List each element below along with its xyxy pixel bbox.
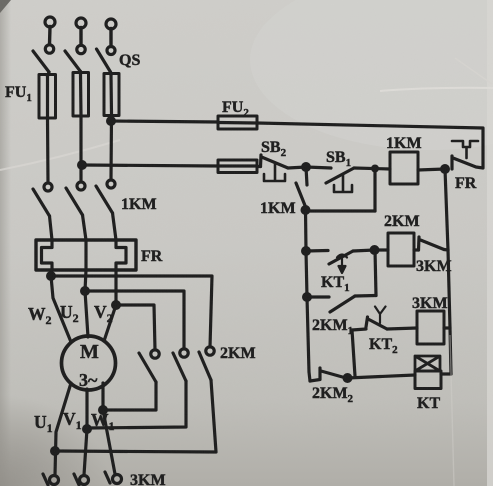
contactor 2KM pole1 terminal	[151, 350, 159, 358]
wire KT2 riser to contact	[352, 329, 366, 330]
pushbutton SB2 fixed tick	[259, 155, 263, 167]
node W1 to 2KM return	[100, 407, 107, 414]
motor M circle	[62, 336, 116, 390]
supply terminal circle phase 1	[45, 17, 55, 27]
pushbutton SB1 blade	[326, 168, 354, 183]
wire node H to KT coil	[348, 375, 416, 378]
label 1KM main contacts	[121, 196, 157, 213]
wire KT2 to 3KM coil	[387, 328, 417, 329]
label SB1	[326, 149, 351, 169]
contact KT1 blade	[329, 251, 353, 264]
thermal contact FR blade	[453, 158, 483, 168]
contactor 3KM pole1 terminal	[50, 476, 59, 485]
supply terminal circle phase 2	[76, 18, 86, 28]
fuse FU2 lower element wire	[218, 164, 257, 167]
wire phase1 drop to QS	[48, 27, 52, 45]
node G junction	[371, 247, 378, 254]
wire QS3 to fuse FU1c	[109, 72, 113, 75]
wire riser to node B	[373, 169, 376, 212]
switch QS pole 3 blade	[97, 49, 111, 72]
wire KT2 riser	[352, 330, 355, 376]
wire FR phase1 down	[51, 270, 71, 342]
wire FU2 to SB2	[257, 165, 261, 168]
wire node F to 2KM1 contact	[307, 295, 329, 298]
wire branch phase3 to 2KM pole1	[116, 305, 155, 350]
label KT coil	[417, 395, 440, 412]
wire motor V1 lead down	[84, 389, 87, 475]
wire 2KM1 to riser	[355, 294, 376, 298]
wire 1KM pole3 to FR	[113, 213, 117, 240]
paper crease left	[0, 140, 120, 170]
wire 1KM coil to node C	[418, 169, 445, 170]
contact 2KM2 fixed tick	[310, 368, 320, 381]
node V1 to 2KM return	[84, 426, 91, 433]
contact 1KM auxiliary stub	[306, 167, 307, 185]
contactor 1KM main pole1 blade	[33, 189, 50, 216]
wire KT1 to node G	[353, 250, 375, 251]
pushbutton SB2 actuator	[264, 163, 285, 181]
node F junction	[304, 294, 311, 301]
contactor 2KM pole3 blade	[199, 352, 211, 380]
coil KT lower box	[415, 371, 441, 389]
contactor 2KM pole2 blade	[173, 353, 186, 381]
wire phase3 drop to QS	[109, 29, 112, 47]
fuse FU1 phase3 element wire	[109, 75, 113, 115]
wire phase1 fuse to 1KM contact	[46, 118, 50, 183]
coil 2KM	[388, 233, 414, 266]
wire FR phase2 down	[85, 270, 88, 337]
node FR phase2 branch	[82, 288, 89, 295]
node H junction	[344, 375, 351, 382]
contact KT1 delay symbol	[337, 255, 347, 274]
label V1	[63, 409, 82, 432]
wire control line1 to right rail	[257, 123, 483, 167]
contactor 1KM main pole2 terminal	[77, 182, 85, 190]
thermal relay FR heater element phase3	[116, 240, 126, 270]
wire 2KM coil to 3KM interlock	[414, 248, 419, 251]
contactor 3KM pole3 blade stub	[105, 472, 110, 483]
contactor 2KM pole1 blade	[139, 353, 156, 382]
node FR phase1 branch	[48, 273, 55, 280]
fuse FU1 phase1 element wire	[46, 76, 49, 118]
contactor 1KM main pole2 blade	[66, 188, 83, 215]
wire 3KM interlock to right rail	[444, 248, 448, 252]
fuse FU1 phase2 body	[73, 73, 89, 117]
node B junction	[373, 166, 378, 171]
paper crease diagonal top right	[455, 58, 492, 84]
wire left control rail	[306, 210, 311, 381]
contactor 2KM pole3 terminal	[206, 347, 214, 355]
label 2KM2	[312, 385, 354, 405]
wire KT coil to right rail	[441, 372, 451, 375]
wire 1KM pole1 to FR	[50, 216, 53, 240]
label 2KM1	[312, 317, 353, 337]
wire QS2 to fuse FU1b	[79, 72, 82, 75]
fuse FU1 phase2 element wire	[79, 74, 83, 116]
label 3KM interlock	[416, 258, 452, 275]
wire node A to SB1	[306, 167, 331, 168]
fuse FU1 phase1 body	[39, 75, 56, 119]
wire phase2 fuse to 1KM contact	[79, 116, 82, 182]
label 2KM coil	[384, 213, 420, 230]
wire phase3 fuse to 1KM contact	[109, 115, 113, 180]
label 1KM coil	[386, 135, 422, 152]
label U1	[34, 412, 53, 435]
contact KT2 fixed tick	[366, 317, 368, 327]
wire right rail	[445, 169, 451, 374]
wire node G to 2KM coil	[375, 248, 389, 251]
wire control line2 from phase2 tap	[82, 165, 218, 166]
label motor 3~	[79, 370, 98, 390]
contact 2KM1 blade	[330, 296, 355, 312]
wire phase2 drop to QS	[79, 28, 82, 46]
bottom-left corner shading	[0, 395, 110, 486]
switch QS pole 1 blade	[33, 51, 49, 72]
contactor 1KM main pole3 terminal	[107, 180, 115, 188]
label W2	[28, 304, 52, 327]
contactor 3KM pole3 terminal	[113, 475, 122, 484]
node A junction	[303, 164, 310, 171]
wire control line1 from phase3 tap	[111, 121, 218, 122]
switch QS pole 2 fixed contact	[77, 45, 85, 53]
coil 1KM	[390, 152, 418, 184]
fuse FU2 upper body	[218, 116, 257, 129]
wire riser G down	[375, 250, 376, 296]
wire FR phase3 down	[104, 270, 116, 341]
thermal relay FR heater element phase2	[84, 240, 87, 270]
wire branch phase1 to 2KM pole3	[51, 276, 212, 347]
coil 3KM	[417, 311, 444, 344]
contact 3KM interlock blade	[421, 240, 445, 250]
contactor 1KM main pole3 blade	[96, 186, 113, 213]
wire QS1 to fuse FU1a	[48, 72, 50, 76]
thermal contact FR heater symbol	[452, 141, 478, 158]
switch QS pole 3 fixed contact	[107, 47, 115, 55]
label V2	[94, 302, 113, 325]
wire motor W1 lead down	[103, 383, 115, 474]
node C junction	[442, 166, 449, 173]
node U1 to 2KM return	[52, 448, 59, 455]
node phase3 to control tap	[108, 118, 115, 125]
contact 1KM auxiliary blade	[296, 183, 306, 208]
paper crease top right	[380, 88, 493, 91]
label motor M	[80, 341, 99, 363]
paper crease bottom right	[450, 335, 454, 486]
wire 1KM pole2 to FR	[83, 215, 87, 240]
wire SB2 to node A	[288, 167, 306, 168]
label 3KM main contacts	[130, 472, 166, 486]
label 1KM aux contact	[260, 200, 296, 217]
contactor 3KM pole2 blade stub	[74, 474, 79, 485]
top-left corner dark notch	[0, 0, 11, 13]
contactor 2KM pole2 terminal	[180, 349, 188, 357]
label QS	[119, 52, 140, 69]
fuse FU1 phase3 body	[104, 74, 119, 116]
left edge shading	[0, 0, 11, 486]
label FU1	[5, 84, 32, 104]
node FR phase3 branch	[113, 302, 120, 309]
pushbutton SB1 actuator	[334, 174, 352, 192]
label FR contact	[455, 175, 477, 192]
contactor 3KM pole1 blade stub	[43, 474, 48, 485]
label W1	[91, 410, 115, 433]
switch QS pole 1 fixed contact	[45, 45, 53, 53]
label FR box	[141, 248, 163, 265]
top-right light sheen	[250, 0, 493, 150]
label SB2	[261, 139, 287, 159]
label FU2	[222, 99, 249, 119]
thermal relay FR box	[36, 240, 136, 270]
fuse FU2 upper element wire	[218, 121, 257, 125]
wire 2KM pole2 return to V1	[87, 381, 186, 428]
contact KT2 delay symbol	[375, 307, 386, 324]
supply terminal circle phase 3	[106, 19, 116, 29]
label 3KM coil	[412, 295, 448, 312]
contactor 1KM main pole1 terminal	[44, 183, 52, 191]
label KT2	[369, 336, 398, 356]
contact 2KM2 blade	[321, 371, 346, 378]
thermal relay FR heater element phase1	[42, 240, 53, 270]
wire branch phase2 to 2KM pole2	[85, 291, 184, 349]
node E junction	[303, 248, 310, 255]
label 2KM main contacts	[220, 345, 256, 362]
pushbutton SB2 blade	[262, 157, 289, 168]
wire 3KM coil to right rail	[444, 326, 450, 329]
wire 2KM pole3 return to U1	[55, 380, 216, 452]
wire SB1 to 1KM coil	[354, 168, 390, 169]
wire motor U1 lead down	[55, 383, 71, 475]
thermal contact FR fixed tick	[450, 156, 453, 169]
wire node E to KT1 contact	[306, 249, 328, 253]
coil KT upper box with cross	[415, 356, 440, 371]
switch QS pole 2 blade	[65, 51, 81, 72]
node D junction	[302, 207, 309, 214]
right paper edge light strip	[487, 0, 493, 486]
contactor 3KM pole2 terminal	[80, 476, 89, 485]
wire 2KM pole1 return to W1	[103, 382, 156, 410]
wire node D to vertical riser	[306, 209, 376, 212]
contact KT2 blade	[368, 319, 387, 329]
node phase2 to control tap	[79, 162, 86, 169]
label U2	[60, 302, 79, 325]
contact 3KM interlock fixed tick	[417, 237, 421, 250]
label KT1	[321, 274, 350, 294]
fuse FU2 lower body	[218, 160, 257, 173]
